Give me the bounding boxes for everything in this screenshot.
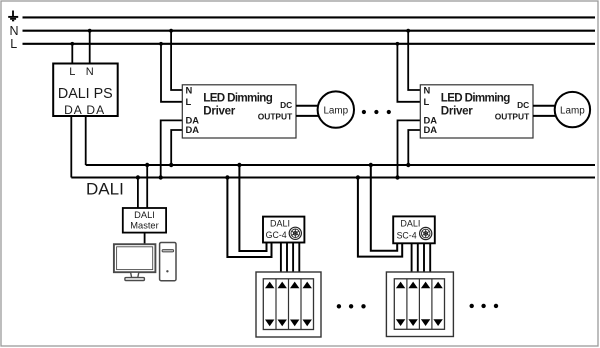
wire driver1 DC to lamp1 bbox=[296, 105, 318, 107]
control module DALI SC-4 bbox=[393, 216, 435, 243]
wire DALI master to PC bbox=[144, 233, 146, 244]
junction master left on lower bus bbox=[136, 175, 140, 179]
wire DALI bus lower bbox=[71, 177, 595, 179]
wire DALI PS DA left down to lower bus bbox=[70, 116, 72, 178]
wire driver2 DC to lamp2 bbox=[533, 105, 555, 107]
svg-text:DC: DC bbox=[280, 100, 292, 110]
wire L line bbox=[23, 43, 596, 45]
wire DALI PS DA right down to upper bus bbox=[85, 116, 87, 165]
svg-text:L: L bbox=[424, 96, 430, 107]
LED driver U3 bbox=[420, 84, 533, 138]
ellipsis between panels bbox=[337, 304, 366, 308]
junction driver2 DA1 on lower bus bbox=[395, 175, 399, 179]
wires SC-4 to switch panel 2 bbox=[412, 243, 431, 272]
junction on L line bbox=[70, 42, 74, 46]
junction driver1 L on L line bbox=[159, 42, 163, 46]
PC tower bbox=[160, 243, 176, 281]
svg-text:N: N bbox=[10, 24, 19, 38]
lamp LA2 bbox=[555, 92, 590, 127]
junction driver2 DA2 on upper bus bbox=[406, 163, 410, 167]
junction SC-4 inner on upper bus bbox=[369, 163, 373, 167]
wire DALI master right to upper bus bbox=[146, 165, 148, 208]
wire driver 1 DA pin2 to upper bus bbox=[171, 130, 182, 165]
svg-text:N: N bbox=[86, 66, 94, 78]
wire N line bbox=[23, 30, 596, 32]
wire DALI bus upper bbox=[86, 164, 595, 166]
wire driver 1 DA pin1 to lower bus bbox=[161, 120, 183, 177]
switch panel S1 bbox=[256, 272, 321, 337]
junction driver1 DA1 on lower bus bbox=[159, 175, 163, 179]
wire lower bus to SC-4 (outer loop) bbox=[358, 178, 402, 257]
lamp LA1 bbox=[318, 91, 354, 127]
wire lower bus to GC-4 (outer loop) bbox=[227, 178, 271, 258]
svg-text:DALI: DALI bbox=[270, 219, 290, 229]
svg-text:DALI: DALI bbox=[86, 180, 124, 199]
svg-text:DALI PS: DALI PS bbox=[58, 86, 113, 102]
wire driver 2 DA pin1 to lower bus bbox=[398, 120, 421, 177]
svg-text:Driver: Driver bbox=[203, 104, 236, 117]
svg-text:Master: Master bbox=[130, 221, 158, 231]
wire N to DALI PS bbox=[89, 31, 91, 64]
ellipsis between drivers bbox=[362, 110, 391, 114]
svg-text:GC-4: GC-4 bbox=[266, 230, 287, 240]
control module DALI GC-4 bbox=[263, 217, 304, 243]
junction GC-4 inner on upper bus bbox=[237, 163, 241, 167]
svg-text:L: L bbox=[10, 37, 17, 51]
wire PE line bbox=[23, 16, 596, 18]
wire N to driver 2 bbox=[408, 31, 420, 90]
ellipsis after panel 2 bbox=[470, 304, 499, 308]
svg-text:Lamp: Lamp bbox=[323, 105, 348, 116]
power supply U1 DALI PS bbox=[53, 64, 118, 117]
LED driver U2 bbox=[182, 84, 296, 138]
junction master right on upper bus bbox=[145, 163, 149, 167]
junction on N line bbox=[88, 29, 92, 33]
svg-text:DA DA: DA DA bbox=[64, 103, 105, 117]
switch panel S2 bbox=[386, 272, 453, 337]
svg-text:LED Dimming: LED Dimming bbox=[441, 92, 510, 105]
svg-text:DC: DC bbox=[517, 100, 529, 110]
wires GC-4 to switch panel 1 bbox=[281, 243, 299, 273]
svg-text:DALI: DALI bbox=[134, 210, 155, 220]
PC monitor bbox=[114, 244, 155, 280]
wire driver 2 DA pin2 to upper bus bbox=[408, 130, 420, 165]
svg-text:Driver: Driver bbox=[441, 104, 474, 117]
svg-text:OUTPUT: OUTPUT bbox=[495, 112, 530, 122]
wire upper bus to SC-4 (inner loop) bbox=[371, 165, 397, 251]
svg-text:L: L bbox=[69, 66, 75, 78]
wire upper bus to GC-4 (inner loop) bbox=[239, 165, 266, 251]
wire DALI master left to lower bus bbox=[137, 178, 139, 209]
svg-text:N: N bbox=[424, 84, 431, 95]
wire driver2 OUTPUT to lamp2 bbox=[533, 115, 555, 117]
junction GC-4 outer on lower bus bbox=[225, 175, 229, 179]
svg-text:LED Dimming: LED Dimming bbox=[203, 92, 272, 105]
svg-text:DA: DA bbox=[186, 124, 200, 135]
junction driver2 L on L line bbox=[396, 42, 400, 46]
junction SC-4 outer on lower bus bbox=[356, 175, 360, 179]
wire driver1 OUTPUT to lamp1 bbox=[296, 115, 318, 117]
svg-text:SC-4: SC-4 bbox=[397, 230, 417, 240]
wire L to driver 1 bbox=[161, 44, 182, 102]
wire L to driver 2 bbox=[397, 44, 420, 102]
svg-text:Lamp: Lamp bbox=[560, 105, 585, 116]
svg-text:OUTPUT: OUTPUT bbox=[258, 112, 293, 122]
junction driver2 N on N line bbox=[406, 29, 410, 33]
wire N to driver 1 bbox=[171, 31, 182, 90]
controller DALI Master bbox=[123, 208, 166, 233]
junction driver1 DA2 on upper bus bbox=[169, 163, 173, 167]
ground bbox=[8, 11, 18, 21]
wire L to DALI PS bbox=[71, 44, 73, 64]
junction driver1 N on N line bbox=[169, 29, 173, 33]
svg-text:N: N bbox=[186, 84, 193, 95]
svg-text:L: L bbox=[186, 96, 192, 107]
svg-text:DALI: DALI bbox=[400, 219, 420, 229]
svg-text:DA: DA bbox=[424, 124, 438, 135]
